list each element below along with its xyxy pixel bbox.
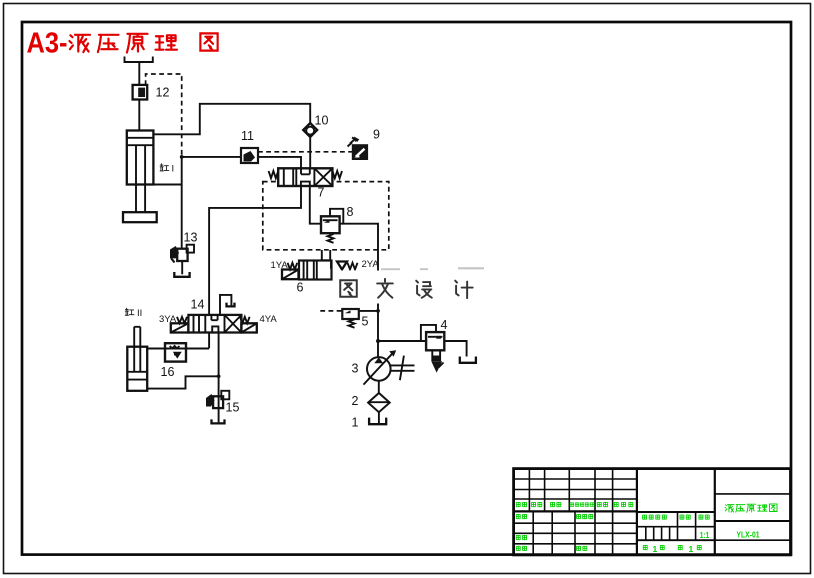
svg-text:3: 3 [352,362,359,376]
wire vertical to sequence valve 13 [181,157,183,249]
check valve 10 [303,123,317,137]
back pressure valve 15 [206,391,229,408]
svg-text:15: 15 [226,401,240,415]
dashed pilot line to valve 5 [320,310,342,312]
svg-text:YLX-01: YLX-01 [737,530,760,540]
wire valve 14 B port down to valve 15 and tank [218,333,220,424]
svg-text:14: 14 [191,298,205,312]
sequence valve 13 [170,245,194,263]
cylinder I mounting bracket [125,57,153,63]
title block frame [514,469,791,555]
piston rod upper of cylinder I [138,62,140,131]
node junction pump line at valve 5 [376,309,380,313]
unloading valve 5 [342,309,359,328]
svg-text:8: 8 [347,205,354,219]
svg-text:7: 7 [318,186,325,200]
wire junction through check valve 11 to valve 7 [182,157,301,168]
svg-text:1:1: 1:1 [700,530,710,540]
svg-text:I: I [172,164,175,175]
tank symbol at valve 14 T port [227,303,235,307]
wire unloading valve 5 to pump line [359,310,378,312]
spring left of valve 7 [269,171,279,178]
wire valve 7 B port to relief valve 8 [310,186,321,224]
pilot relief valve 8 [321,209,343,243]
svg-text:1: 1 [352,416,359,430]
wire pump suction to filter 2 [378,381,380,393]
wire valve 13 to tank [181,261,183,274]
tank symbol below valve 13 [174,272,189,277]
variable pump 3 [364,350,415,384]
solenoid directional valve 14 [159,314,277,333]
label cylinder I [160,164,174,175]
dashed enclosure around valve 7 and relief valve 8 [263,182,389,250]
svg-text:1: 1 [653,544,658,554]
wire cylinder II top port through throttle 16 to valve 14 [147,348,209,350]
svg-text:4YA: 4YA [260,314,278,325]
svg-text:4: 4 [441,318,448,332]
svg-text:A3-: A3- [27,28,68,60]
svg-text:2: 2 [352,394,359,408]
tank symbol right of valve 4 [460,357,476,363]
title block green labels [516,502,777,553]
svg-text:10: 10 [315,114,329,128]
node junction pump outlet [376,339,380,343]
tank 1 [369,418,386,425]
svg-text:13: 13 [184,231,198,245]
spring right of valve 7 [332,171,342,178]
wire valve 14 T port to tank [220,295,231,315]
tank symbol below valve 15 [212,419,225,423]
wire cylinder I top port to check valve 10 [153,104,310,135]
watermark background strip [333,271,481,304]
cylinder I body [123,131,157,223]
pressure reducing valve 4 [421,325,444,373]
watermark text [340,280,357,297]
faint gray marks [381,268,400,270]
svg-text:9: 9 [373,128,380,142]
dashed enclosure stub around component 12 [146,74,182,156]
title text A3-hydraulic schematic [27,28,218,60]
cylinder II body [127,327,147,391]
wire check valve 10 to valve 7 P port [309,137,311,168]
wire pump to junction [377,341,379,357]
svg-text:2YA: 2YA [362,259,380,270]
svg-text:16: 16 [161,365,175,379]
svg-text:12: 12 [156,86,170,100]
svg-text:II: II [137,308,142,319]
one-way throttle valve 16 [165,343,186,361]
node junction at valve 15 branch [217,374,221,378]
wire relief valve 8 outlet down to pump line [340,224,378,341]
wire filter 2 to tank 1 [378,412,380,424]
wire reducing valve 4 outlet to tank [444,341,466,357]
throttle component 12 [133,85,148,100]
solenoid valve 6 [271,259,380,280]
wire cylinder I bottom port [153,184,181,186]
svg-text:5: 5 [362,315,369,329]
filter 2 [368,393,390,412]
remote relief valve 9 [348,137,368,160]
dashed pilot line from valve 11 to relief valve 9 [258,151,353,153]
label cylinder II [125,308,142,319]
svg-text:1: 1 [689,544,694,554]
svg-text:11: 11 [241,129,254,143]
wire pump outlet to reducing valve 4 [378,340,426,342]
svg-text:6: 6 [297,281,304,295]
node junction at 11 branch [180,155,184,159]
wire valve 6 ports up to dashed block [322,250,330,261]
check valve 11 [241,148,258,163]
directional valve 7 body [278,168,332,186]
wire valve 7 A port down-left to valve 14 [209,186,301,348]
wire cylinder II bottom port to valve 15 line [147,376,218,388]
